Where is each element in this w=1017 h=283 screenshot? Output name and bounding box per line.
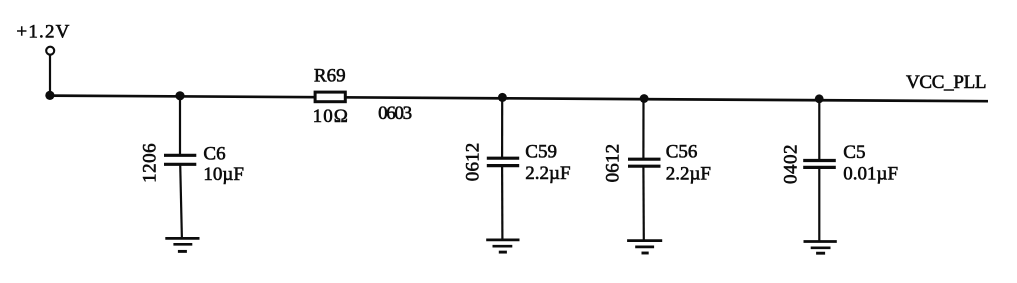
ground symbol C6 <box>165 237 199 240</box>
ground symbol C59 <box>486 239 519 242</box>
capacitor C56 <box>603 94 711 253</box>
wire C56 bottom plate to ground <box>642 166 645 240</box>
C56 bottom plate <box>628 165 661 168</box>
capacitor C5 <box>781 94 899 253</box>
junction dot C59 <box>498 93 507 102</box>
wire main VCC rail <box>49 96 988 102</box>
C6 top plate <box>164 154 196 157</box>
wire C6 bottom plate to ground <box>180 164 182 238</box>
wire rail to C5 top plate <box>818 97 820 161</box>
wire rail to C59 top plate <box>501 96 503 158</box>
C5 bottom plate <box>803 166 836 169</box>
svg-text:0402: 0402 <box>781 145 802 185</box>
svg-text:C56: C56 <box>666 142 698 163</box>
C59 bottom plate <box>487 164 519 167</box>
ground symbol C56 <box>627 239 662 242</box>
svg-text:R69: R69 <box>314 65 346 86</box>
svg-text:C5: C5 <box>843 142 865 163</box>
svg-text:2.2µF: 2.2µF <box>525 163 570 184</box>
resistor R69 body <box>315 92 345 102</box>
junction dot C6 <box>175 91 184 100</box>
junction dot at +1.2V entry <box>45 91 54 100</box>
svg-text:0603: 0603 <box>378 103 412 124</box>
C56 top plate <box>628 158 661 161</box>
svg-text:0.01µF: 0.01µF <box>843 164 898 185</box>
wire rail to C56 top plate <box>642 97 644 159</box>
svg-text:C6: C6 <box>203 144 225 165</box>
junction dot C5 <box>815 94 824 103</box>
svg-text:10µF: 10µF <box>203 164 244 185</box>
wire C5 bottom plate to ground <box>818 167 820 241</box>
svg-text:10Ω: 10Ω <box>313 106 348 127</box>
wire rail to C6 top plate <box>179 95 181 155</box>
svg-text:0612: 0612 <box>463 143 484 182</box>
wire from terminal to rail <box>49 55 51 96</box>
svg-text:2.2µF: 2.2µF <box>666 164 711 185</box>
capacitor C59 <box>463 93 571 252</box>
svg-text:VCC_PLL: VCC_PLL <box>906 72 987 93</box>
power terminal circle <box>46 47 54 55</box>
svg-text:+1.2V: +1.2V <box>16 22 69 43</box>
svg-text:1206: 1206 <box>139 143 160 183</box>
C6 bottom plate <box>164 163 196 166</box>
svg-text:C59: C59 <box>525 142 557 163</box>
C5 top plate <box>803 159 836 162</box>
wire C59 bottom plate to ground <box>501 166 503 240</box>
svg-text:0612: 0612 <box>603 144 624 183</box>
ground symbol C5 <box>804 240 837 243</box>
C59 top plate <box>487 157 519 160</box>
capacitor C6 <box>139 91 244 251</box>
junction dot C56 <box>640 94 649 103</box>
